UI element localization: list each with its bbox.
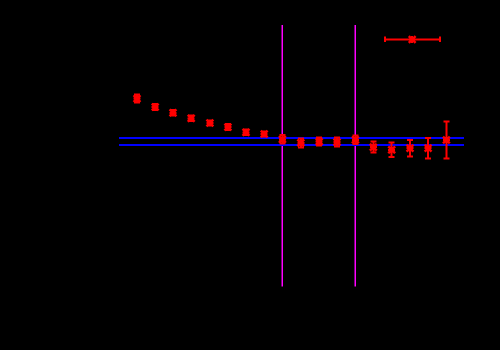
fit band: lower blue horizontal line [119, 144, 464, 146]
data point 10 errorbar with star marker at (300.8,142.9) err 4.4 [297, 139, 304, 148]
data point 11 errorbar with star marker at (319.2,141.6) err 4.0 [316, 138, 323, 146]
data point 12 errorbar with star marker at (337.0,142.0) err 4.6 [334, 137, 341, 146]
data point 8 errorbar with star marker at (264.2,134.0) err 2.7 [261, 131, 268, 138]
data point 7 errorbar with star marker at (246.0,132.3) err 2.8 [243, 129, 250, 136]
data point 9 errorbar with star marker at (282.4,139.4) err 4.3 [279, 135, 286, 144]
data point 13 errorbar with star marker at (355.4,139.8) err 4.4 [352, 135, 359, 144]
fit band: upper blue horizontal line [119, 137, 464, 139]
data point 6 errorbar with star marker at (227.9,127.1) err 3.0 [224, 124, 231, 131]
data point 3 errorbar with star marker at (173.0,112.8) err 2.6 [170, 109, 177, 116]
data point 4 errorbar with star marker at (191.2,118.3) err 2.6 [188, 115, 195, 122]
data point 15 errorbar with star marker at (391.7,149.8) err 7.4 [388, 142, 395, 157]
data point 14 errorbar with star marker at (373.3,147.2) err 5.5 [370, 142, 377, 153]
legend key sample: red errorbar line with star marker [385, 36, 440, 43]
fit-range marker: right vertical magenta line [354, 25, 356, 287]
data point 2 errorbar with star marker at (155.2,107.0) err 3.0 [152, 104, 159, 111]
data point 1 errorbar with star marker at (137.0,98.6) err 3.9 [134, 95, 141, 103]
data point 17 errorbar with star marker at (428.1,148.2) err 10.3 [425, 138, 432, 159]
data point 16 errorbar with star marker at (410.0,148.2) err 8.2 [407, 140, 414, 156]
data point 18 errorbar with star marker at (446.4,140.0) err 18.4 [443, 122, 450, 159]
fit-range marker: left vertical magenta line [281, 25, 283, 287]
data point 5 errorbar with star marker at (209.9,123.0) err 2.6 [206, 120, 213, 127]
